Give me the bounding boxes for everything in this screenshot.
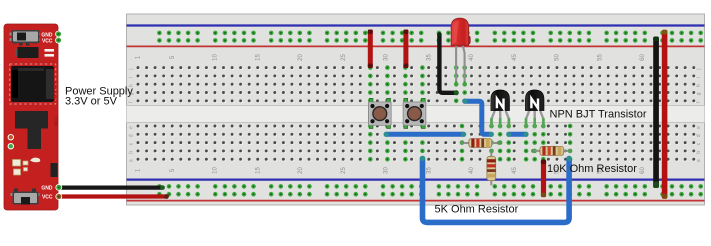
pushbutton S1 — [369, 98, 392, 128]
svg-text:d: d — [129, 134, 135, 137]
resistor R2 5K Ohm (vertical) — [487, 149, 496, 185]
svg-text:NPN BJT Transistor: NPN BJT Transistor — [550, 108, 647, 120]
header pin GND top — [55, 31, 62, 38]
svg-text:15: 15 — [255, 167, 261, 174]
wire red W10 (right, rail to rail) — [662, 30, 668, 199]
svg-text:VCC: VCC — [42, 195, 53, 201]
svg-text:10: 10 — [212, 54, 218, 61]
row letters — [129, 69, 702, 163]
slide switch SW1 — [10, 30, 41, 46]
svg-text:e: e — [129, 126, 135, 129]
wire black W3 (rail to LED column) — [437, 32, 459, 95]
jumper wire red W1 — [368, 30, 373, 69]
svg-text:40: 40 — [469, 167, 475, 174]
voltage regulator U1 — [15, 47, 39, 58]
svg-text:45: 45 — [512, 167, 518, 174]
svg-text:a: a — [696, 159, 702, 162]
svg-text:30: 30 — [384, 167, 390, 174]
svg-text:60: 60 — [640, 54, 646, 61]
wire black W9 (right, rail to rail) — [653, 37, 659, 189]
svg-text:i: i — [696, 77, 702, 78]
svg-text:45: 45 — [512, 54, 518, 61]
svg-text:40: 40 — [469, 54, 475, 61]
svg-text:e: e — [696, 126, 702, 129]
SMD components — [13, 158, 41, 175]
svg-text:a: a — [129, 159, 135, 162]
svg-text:55: 55 — [597, 54, 603, 61]
svg-text:b: b — [129, 151, 135, 154]
header pin GND bottom — [55, 184, 62, 191]
svg-text:3.3V or 5V: 3.3V or 5V — [65, 96, 118, 108]
wire red W8 (Q2 emitter to ground rail) — [541, 160, 546, 198]
svg-text:d: d — [696, 134, 702, 137]
wire blue W7 (long U loop) — [420, 156, 572, 223]
svg-text:25: 25 — [341, 54, 347, 61]
column number labels — [136, 54, 647, 174]
svg-text:j: j — [696, 69, 702, 71]
svg-text:VCC: VCC — [54, 116, 59, 126]
svg-text:10: 10 — [212, 167, 218, 174]
barrel jack J1 — [10, 64, 56, 104]
resistor R3 10K Ohm (row i) — [531, 146, 572, 155]
slide switch SW2 — [11, 189, 40, 205]
wire blue W6 (Q1 emitter to Q2 collector) — [506, 132, 528, 137]
breadboard — [127, 14, 705, 205]
jumper wire red W2 — [403, 30, 408, 69]
svg-text:20: 20 — [298, 167, 304, 174]
svg-text:50: 50 — [555, 54, 561, 61]
svg-text:g: g — [696, 92, 702, 95]
transistor Q2 NPN — [525, 90, 544, 128]
capacitor marks — [45, 49, 55, 57]
header pin VCC top — [55, 37, 62, 44]
wire black power GND — [60, 185, 165, 190]
indicator LED red — [8, 134, 14, 140]
header pin VCC bottom — [55, 193, 62, 200]
svg-text:5K Ohm Resistor: 5K Ohm Resistor — [435, 204, 519, 216]
indicator LED green — [8, 143, 14, 149]
svg-text:10K Ohm Resistor: 10K Ohm Resistor — [547, 163, 637, 175]
power rail holes — [157, 31, 703, 197]
svg-text:VCC: VCC — [42, 39, 53, 45]
USB connector J2 — [15, 111, 48, 149]
svg-text:GND: GND — [41, 185, 53, 191]
resistor R1 (base resistor, row h) — [460, 139, 501, 148]
LED D1 red — [451, 18, 470, 86]
terminal strip holes — [137, 65, 697, 161]
wire blue W4 (button S2 to col 38) — [384, 132, 467, 137]
svg-text:25: 25 — [341, 167, 347, 174]
svg-text:30: 30 — [384, 54, 390, 61]
svg-text:35: 35 — [426, 54, 432, 61]
svg-text:35: 35 — [426, 167, 432, 174]
svg-text:i: i — [129, 77, 135, 78]
svg-text:j: j — [129, 69, 135, 71]
power supply module PS1 — [4, 24, 58, 210]
svg-text:GND: GND — [41, 32, 53, 38]
svg-text:15: 15 — [255, 54, 261, 61]
SMD IC — [51, 163, 58, 177]
wire red power VCC — [60, 194, 169, 199]
svg-text:b: b — [696, 151, 702, 154]
svg-text:60: 60 — [640, 167, 646, 174]
pushbutton S2 — [403, 98, 426, 128]
svg-text:6.5V-12V: 6.5V-12V — [52, 81, 57, 100]
svg-text:h: h — [696, 84, 702, 87]
wire blue W5 (LED column to Q1 base) — [462, 99, 494, 137]
transistor Q1 NPN — [491, 90, 510, 128]
svg-text:20: 20 — [298, 54, 304, 61]
